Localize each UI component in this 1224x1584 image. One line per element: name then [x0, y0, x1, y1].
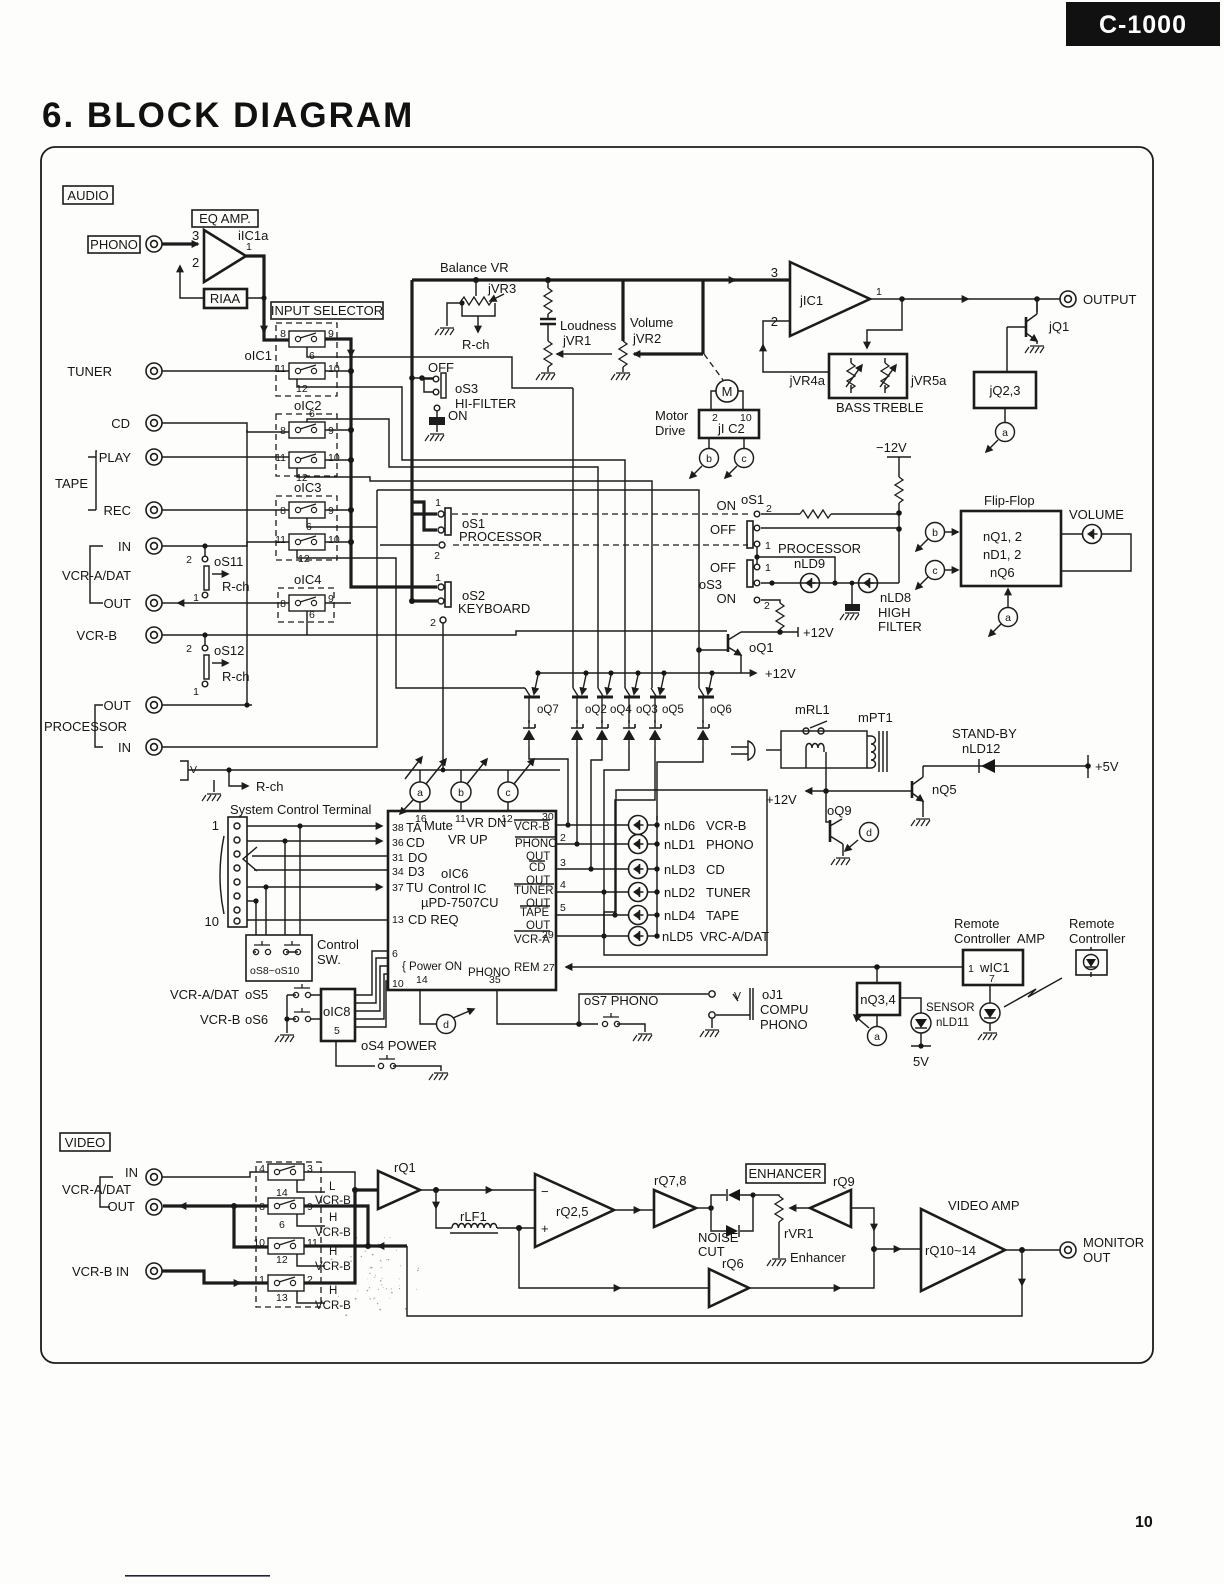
svg-text:HIGH: HIGH	[878, 605, 911, 620]
svg-text:IN: IN	[118, 539, 131, 554]
svg-text:oS7 PHONO: oS7 PHONO	[584, 993, 658, 1008]
svg-text:D3: D3	[408, 864, 425, 879]
svg-text:IN: IN	[118, 740, 131, 755]
svg-text:11: 11	[275, 363, 286, 375]
wire oIC1 sw2 tail 12	[297, 379, 625, 688]
switch oS6 row	[200, 1008, 322, 1042]
svg-text:VCR-B: VCR-B	[200, 1012, 240, 1027]
feedback long bottom wire	[1021, 1250, 1023, 1285]
wire rQ1 out	[420, 1189, 492, 1191]
switch oS7 phono	[584, 993, 658, 1041]
svg-text:CD: CD	[111, 416, 130, 431]
svg-text:VCR-B: VCR-B	[77, 628, 117, 643]
svg-text:mPT1: mPT1	[858, 710, 893, 725]
node a to flip-flop	[989, 589, 1018, 636]
motor M	[704, 354, 738, 402]
svg-text:6: 6	[309, 408, 315, 420]
svg-text:a: a	[1005, 612, 1011, 624]
svg-text:34: 34	[392, 866, 404, 878]
LED cathode bus from oQ6	[656, 816, 658, 938]
connector PHONO	[146, 236, 162, 252]
wire jQ1 base to jQ2,3	[1006, 327, 1008, 372]
op-amp jIC1	[771, 262, 882, 336]
node main bus vertical x412	[412, 280, 438, 601]
svg-text:10: 10	[253, 1237, 265, 1249]
wire terminal row2 to pin36	[247, 840, 382, 842]
svg-text:rQ2,5: rQ2,5	[556, 1204, 589, 1219]
switch oS4 power	[336, 1038, 448, 1080]
feedback wire tone to jIC1 pin2	[763, 345, 829, 372]
VIDEO section label	[60, 1133, 110, 1151]
svg-text:EQ AMP.: EQ AMP.	[199, 211, 251, 226]
wire oIC3 sw1 tail 6	[307, 518, 377, 527]
svg-text:b: b	[458, 787, 464, 799]
potentiometer jVR3	[435, 277, 516, 352]
svg-text:+12V: +12V	[766, 792, 797, 807]
wire oIC2 pins to bus	[325, 430, 351, 460]
svg-text:VIDEO: VIDEO	[65, 1135, 105, 1150]
svg-text:VR UP: VR UP	[448, 832, 488, 847]
svg-text:iIC1a: iIC1a	[238, 228, 269, 243]
svg-text:+12V: +12V	[803, 625, 834, 640]
switch oS1 on/off (right)	[710, 492, 899, 552]
svg-text:2: 2	[192, 255, 199, 270]
svg-text:C-1000: C-1000	[1099, 11, 1187, 39]
svg-text:VCR-B IN: VCR-B IN	[72, 1264, 129, 1279]
svg-text:CUT: CUT	[698, 1244, 725, 1259]
svg-text:4: 4	[259, 1163, 265, 1175]
svg-text:R-ch: R-ch	[256, 779, 283, 794]
connector VCR-A OUT	[146, 595, 162, 611]
wire oQ3 column	[604, 746, 629, 936]
wire rQ9 input	[851, 1208, 874, 1230]
svg-text:R-ch: R-ch	[462, 337, 489, 352]
svg-text:nLD4: nLD4	[664, 908, 695, 923]
svg-text:1: 1	[765, 540, 771, 552]
svg-text:10: 10	[1135, 1514, 1153, 1531]
svg-text:M: M	[722, 384, 733, 399]
svg-text:PHONO: PHONO	[515, 838, 557, 850]
video switch row1	[259, 1163, 351, 1207]
svg-text:VCR-A/DAT: VCR-A/DAT	[170, 987, 239, 1002]
svg-text:5: 5	[560, 902, 566, 914]
svg-text:b: b	[706, 453, 712, 465]
relay coil	[806, 744, 824, 769]
svg-text:3: 3	[192, 228, 199, 243]
svg-text:Balance VR: Balance VR	[440, 260, 509, 275]
amp rQ6	[709, 1256, 749, 1307]
connector TAPE REC	[146, 502, 162, 518]
svg-text:rVR1: rVR1	[784, 1226, 814, 1241]
wire vcr-b in row	[162, 1271, 240, 1283]
tone box jVR4a jVR5a	[789, 354, 948, 415]
wire terminal to pin37	[247, 886, 382, 888]
box nQ3,4	[857, 967, 900, 1015]
svg-text:jVR1: jVR1	[562, 333, 591, 348]
svg-text:REC: REC	[104, 503, 131, 518]
switch oS12	[186, 635, 249, 698]
svg-text:OFF: OFF	[710, 522, 736, 537]
PROCESSOR bracket	[95, 705, 103, 747]
lightning bolt	[1004, 978, 1062, 1007]
wire video out row	[180, 1204, 268, 1207]
wire vcr-b row	[162, 631, 727, 635]
svg-text:CD: CD	[406, 835, 425, 850]
svg-text:rQ9: rQ9	[833, 1174, 855, 1189]
noise cut diode pair	[698, 1189, 756, 1259]
wire oIC1 sw1 tail 6	[307, 347, 573, 388]
svg-text:38: 38	[392, 822, 404, 834]
wire vcr-a out row	[178, 602, 289, 604]
svg-text:10: 10	[328, 363, 340, 375]
node d circle	[420, 990, 474, 1034]
video selector dashed box	[256, 1162, 321, 1307]
connector TAPE PLAY	[146, 449, 162, 465]
LED row nLD5	[556, 935, 629, 937]
wire tuner row	[162, 370, 289, 372]
svg-text:PHONO: PHONO	[706, 837, 754, 852]
wire to tone box	[867, 299, 902, 348]
svg-text:H: H	[329, 1246, 337, 1258]
svg-text:PROCESSOR: PROCESSOR	[44, 719, 127, 734]
wires M to jIC2	[711, 391, 743, 410]
+12V feed line	[806, 790, 911, 792]
svg-text:nQ6: nQ6	[990, 565, 1015, 580]
svg-text:PHONO: PHONO	[90, 237, 138, 252]
diode below oQ6	[697, 720, 709, 746]
svg-text:nLD11: nLD11	[936, 1017, 969, 1029]
svg-text:jVR3: jVR3	[487, 281, 516, 296]
AC plug	[731, 741, 781, 760]
LED row nLD6	[556, 824, 629, 826]
video switch row3	[253, 1237, 351, 1273]
svg-text:OUT: OUT	[104, 596, 132, 611]
diode below oQ2	[571, 720, 583, 746]
coil rLF1	[450, 1209, 535, 1233]
transistor oQ9	[826, 791, 852, 865]
svg-text:3: 3	[560, 857, 566, 869]
svg-text:8: 8	[280, 328, 286, 340]
diode below oQ5	[649, 720, 661, 746]
wire terminal to pin13	[247, 919, 388, 921]
svg-text:H: H	[329, 1212, 337, 1224]
transformer mPT1	[858, 710, 893, 772]
svg-text:Control IC: Control IC	[428, 881, 487, 896]
flip-flop box	[961, 493, 1061, 586]
svg-text:jI C2: jI C2	[717, 421, 745, 436]
node b below jIC2	[690, 438, 719, 478]
wire cd row	[162, 423, 289, 432]
op-amp iIC1a	[192, 228, 269, 282]
wire to video amp	[874, 1248, 900, 1250]
video amp triangle	[921, 1198, 1020, 1291]
svg-text:2: 2	[434, 550, 440, 562]
supply -12V	[876, 440, 911, 583]
wire coil to +12 line	[825, 752, 827, 791]
svg-text:VCR-B: VCR-B	[315, 1227, 351, 1239]
RIAA box	[204, 289, 247, 308]
node c circle	[498, 759, 534, 811]
svg-text:nLD6: nLD6	[664, 818, 695, 833]
node d circle right	[845, 823, 879, 852]
long wire y467 to oQ4	[297, 468, 652, 688]
diode nLD12 stand-by	[923, 726, 1119, 778]
wire rQ2,5 out	[614, 1209, 640, 1211]
svg-text:b: b	[932, 527, 938, 539]
model badge C-1000	[1066, 2, 1220, 46]
relay mRL1 box	[781, 702, 867, 768]
svg-text:oS1: oS1	[741, 492, 764, 507]
amp rQ1	[355, 1160, 420, 1209]
svg-text:VR DN: VR DN	[466, 815, 506, 830]
svg-text:12: 12	[296, 383, 308, 395]
node c below jIC2	[725, 438, 754, 478]
switch oS5 row	[170, 984, 322, 1019]
box wIC1	[963, 950, 1023, 985]
svg-text:Flip-Flop: Flip-Flop	[984, 493, 1035, 508]
svg-text:BASS: BASS	[836, 400, 871, 415]
svg-text:12: 12	[276, 1254, 288, 1266]
svg-text:c: c	[741, 453, 746, 465]
svg-text:3: 3	[307, 1163, 313, 1175]
wire oIC3 sw2 tail 12 to oQ7	[297, 550, 525, 688]
wire nLD row	[761, 582, 899, 584]
TAPE bracket	[88, 457, 96, 510]
svg-text:6: 6	[279, 1219, 285, 1231]
VOLUME led loop	[1061, 507, 1131, 571]
svg-text:jVR4a: jVR4a	[789, 373, 826, 388]
loudness network jVR1	[536, 277, 617, 380]
svg-text:9: 9	[328, 425, 334, 437]
svg-text:10: 10	[328, 534, 340, 546]
svg-text:2: 2	[766, 503, 772, 515]
RIAA feedback wire	[180, 266, 204, 298]
svg-text:oIC6: oIC6	[441, 866, 468, 881]
selector oIC1	[245, 323, 340, 396]
svg-text:oS5: oS5	[245, 987, 268, 1002]
wire row1 out to rQ1	[304, 1172, 355, 1190]
svg-text:rQ7,8: rQ7,8	[654, 1173, 687, 1188]
switch oS2 keyboard (left)	[430, 572, 530, 629]
svg-text:Remote: Remote	[954, 916, 1000, 931]
svg-text:31: 31	[392, 852, 404, 864]
svg-text:MONITOR: MONITOR	[1083, 1235, 1144, 1250]
svg-text:nQ5: nQ5	[932, 782, 957, 797]
svg-text:oIC2: oIC2	[294, 398, 321, 413]
svg-text:Controller AMP: Controller AMP	[954, 931, 1045, 946]
svg-text:10: 10	[328, 452, 340, 464]
svg-text:Loudness: Loudness	[560, 318, 617, 333]
svg-text:rQ10~14: rQ10~14	[925, 1243, 976, 1258]
svg-text:11: 11	[455, 813, 466, 825]
connector CD	[146, 415, 162, 431]
svg-text:V: V	[734, 990, 741, 1002]
svg-text:1: 1	[968, 963, 974, 975]
selector oIC2	[275, 398, 340, 484]
svg-text:ENHANCER: ENHANCER	[749, 1166, 822, 1181]
svg-text:µPD-7507CU: µPD-7507CU	[421, 895, 499, 910]
volume jVR2	[611, 280, 703, 380]
svg-text:8: 8	[280, 505, 286, 517]
wire oQ4 column	[591, 746, 602, 869]
transistor oQ1	[696, 625, 834, 673]
svg-text:VIDEO AMP: VIDEO AMP	[948, 1198, 1020, 1213]
transistor jQ1	[1007, 299, 1069, 353]
svg-text:nLD1: nLD1	[664, 837, 695, 852]
svg-text:nLD9: nLD9	[794, 556, 825, 571]
wire oIC2 sw1 tail 6	[307, 419, 598, 688]
svg-text:13: 13	[392, 914, 404, 926]
svg-text:Drive: Drive	[655, 423, 685, 438]
LED row nLD1	[556, 843, 629, 845]
svg-text:VCR-A/DAT: VCR-A/DAT	[62, 1182, 131, 1197]
svg-text:6: 6	[309, 609, 315, 621]
control sw box	[246, 935, 359, 981]
svg-text:5V: 5V	[913, 1054, 929, 1069]
LED block frame	[604, 790, 767, 955]
ground hi-filter LED	[840, 581, 860, 620]
wire oIC4 pin9 to bus	[325, 602, 351, 604]
wire oQ7 column to LED row	[529, 746, 568, 825]
svg-text:PHONO: PHONO	[760, 1017, 808, 1032]
svg-text:nLD3: nLD3	[664, 862, 695, 877]
AUDIO section label	[63, 186, 113, 204]
box oIC6	[388, 811, 556, 990]
svg-text:jQ2,3: jQ2,3	[988, 383, 1020, 398]
transistor oQ2	[572, 670, 607, 723]
transistor oQ3	[624, 670, 658, 723]
svg-text:TREBLE: TREBLE	[873, 400, 924, 415]
svg-text:a: a	[1002, 427, 1008, 439]
connector video OUT	[146, 1199, 162, 1215]
svg-text:13: 13	[276, 1292, 288, 1304]
IR emitter LED	[978, 985, 1000, 1040]
connector VCR-B IN	[146, 1263, 162, 1279]
switch oS3 hi-filter	[409, 360, 516, 441]
svg-text:+5V: +5V	[1095, 759, 1119, 774]
transistor oQ6	[698, 670, 732, 723]
svg-text:1: 1	[435, 497, 441, 509]
svg-text:11: 11	[275, 534, 286, 546]
svg-text:oIC4: oIC4	[294, 572, 321, 587]
LED row nLD2	[556, 891, 629, 893]
connector video IN	[146, 1169, 162, 1185]
wire video in row	[162, 1172, 268, 1177]
svg-text:a: a	[417, 787, 423, 799]
svg-text:oQ2: oQ2	[585, 704, 607, 716]
svg-text:TUNER: TUNER	[514, 885, 554, 897]
svg-text:oIC3: oIC3	[294, 480, 321, 495]
LED row nLD4	[556, 914, 629, 916]
box jQ2,3	[974, 372, 1036, 408]
terminal strip	[205, 817, 247, 929]
svg-text:oQ6: oQ6	[710, 704, 732, 716]
VCR-A/DAT bracket	[90, 546, 103, 603]
svg-text:R-ch: R-ch	[222, 669, 249, 684]
svg-text:nLD8: nLD8	[880, 590, 911, 605]
svg-text:nLD5: nLD5	[662, 929, 693, 944]
svg-text:2: 2	[430, 617, 436, 629]
wire rQ6 out join	[749, 1287, 840, 1289]
wire pin35 to oS7	[497, 990, 598, 1024]
wire play row	[162, 456, 289, 458]
svg-text:jVR5a: jVR5a	[910, 373, 947, 388]
wire riaa to output node	[247, 297, 264, 299]
svg-text:oS8~oS10: oS8~oS10	[250, 965, 299, 977]
svg-text:FILTER: FILTER	[878, 619, 922, 634]
selector oIC3	[275, 480, 340, 565]
wire REM into oIC6	[566, 966, 963, 968]
svg-text:11: 11	[275, 452, 286, 464]
svg-text:oQ1: oQ1	[749, 640, 774, 655]
svg-text:1: 1	[435, 572, 441, 584]
wire oS2 pin2 down to b	[442, 623, 444, 770]
wire terminal row1 to pin38	[247, 825, 382, 827]
svg-text:oIC8: oIC8	[323, 1004, 350, 1019]
transistor oQ5	[650, 670, 684, 723]
transistor oQ7	[524, 670, 559, 723]
svg-text:VCR-B: VCR-B	[514, 821, 550, 833]
svg-text:jVR2: jVR2	[632, 331, 661, 346]
svg-text:35: 35	[489, 974, 501, 986]
svg-text:1: 1	[876, 286, 882, 298]
wire oQ6 column to nLD5 row	[657, 746, 703, 820]
svg-text:OUT: OUT	[104, 698, 132, 713]
svg-text:SW.: SW.	[317, 952, 341, 967]
svg-text:TA: TA	[406, 820, 422, 835]
svg-text:rQ1: rQ1	[394, 1160, 416, 1175]
svg-text:1: 1	[193, 592, 199, 604]
wire oIC4 tail 6 to oQ7	[306, 611, 308, 635]
svg-text:1: 1	[193, 686, 199, 698]
box jIC2	[655, 408, 759, 438]
svg-text:DO: DO	[408, 850, 428, 865]
svg-text:COMPU: COMPU	[760, 1002, 808, 1017]
svg-text:jIC1: jIC1	[799, 293, 823, 308]
switch oS11	[186, 546, 249, 604]
svg-text:oS3: oS3	[455, 381, 478, 396]
EQ AMP. label box	[192, 210, 258, 227]
svg-text:oQ5: oQ5	[662, 704, 684, 716]
wire oIC1 sw2 to bus	[325, 370, 351, 372]
svg-text:OUT: OUT	[1083, 1250, 1111, 1265]
node b circle	[451, 759, 487, 811]
node a circle	[400, 757, 446, 814]
svg-text:RIAA: RIAA	[210, 291, 241, 306]
connector VCR-B	[146, 627, 162, 643]
svg-text:IN: IN	[125, 1165, 138, 1180]
scan speckle (decorative noise matching original)	[331, 1237, 419, 1316]
svg-text:VRC-A/DAT: VRC-A/DAT	[700, 929, 769, 944]
svg-text:oS3: oS3	[699, 577, 722, 592]
node b to flip-flop	[916, 523, 958, 552]
svg-text:VCR-A/DAT: VCR-A/DAT	[62, 568, 131, 583]
svg-text:nQ3,4: nQ3,4	[860, 992, 895, 1007]
svg-text:Controller: Controller	[1069, 931, 1126, 946]
svg-text:+12V: +12V	[765, 666, 796, 681]
svg-text:OUT: OUT	[108, 1199, 136, 1214]
connector PROCESSOR OUT	[146, 697, 162, 713]
+12V collector bus	[536, 672, 756, 674]
svg-text:14: 14	[416, 974, 428, 986]
svg-text:INPUT SELECTOR: INPUT SELECTOR	[271, 303, 383, 318]
verticals to control sw	[256, 826, 300, 935]
svg-text:a: a	[874, 1031, 880, 1043]
oIC8 fan wires	[355, 951, 388, 1027]
wire rQ7,8 out	[696, 1207, 711, 1209]
wire y490 to oQ1/oQ6	[377, 490, 699, 688]
LED nLD8	[859, 574, 878, 593]
